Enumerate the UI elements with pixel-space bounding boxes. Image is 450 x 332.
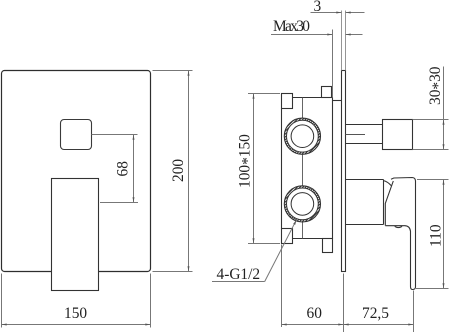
svg-text:100*150: 100*150 bbox=[237, 134, 257, 188]
svg-text:72,5: 72,5 bbox=[362, 305, 389, 322]
svg-text:4-G1/2: 4-G1/2 bbox=[217, 266, 261, 283]
svg-text:Max30: Max30 bbox=[273, 18, 310, 35]
svg-text:3: 3 bbox=[314, 0, 322, 15]
svg-text:110: 110 bbox=[428, 224, 445, 247]
svg-text:68: 68 bbox=[115, 161, 132, 177]
svg-text:150: 150 bbox=[64, 305, 87, 322]
svg-text:60: 60 bbox=[307, 305, 323, 322]
svg-text:30*30: 30*30 bbox=[427, 66, 447, 105]
svg-text:200: 200 bbox=[170, 159, 187, 182]
